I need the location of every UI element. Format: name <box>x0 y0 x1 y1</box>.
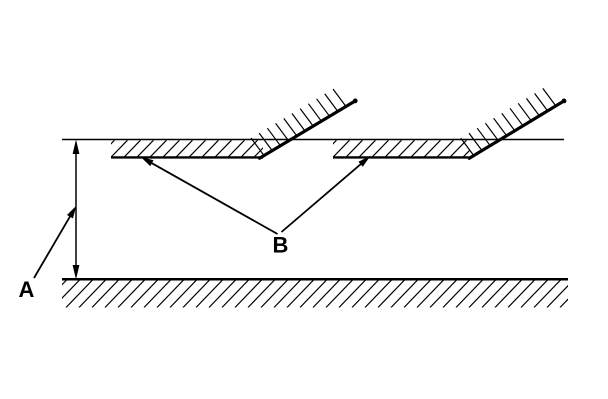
leader from B to right plate <box>282 156 371 232</box>
right plate hatching <box>320 140 480 157</box>
left plate bottom edge <box>111 156 263 158</box>
left raised flap edge <box>260 99 358 159</box>
lower surface hatching <box>40 280 600 308</box>
leader from A to dimension line <box>34 206 77 279</box>
top surface line <box>62 139 564 141</box>
right raised flap hatching <box>461 88 556 155</box>
label B <box>273 233 289 258</box>
lower surface line <box>62 278 568 281</box>
label A <box>19 277 35 302</box>
left raised flap hatching <box>251 89 346 156</box>
svg-text:A: A <box>19 277 35 302</box>
dimension line A (vertical double-headed arrow) <box>73 140 80 280</box>
leader from B to left plate <box>141 157 278 234</box>
svg-text:B: B <box>273 233 289 258</box>
right plate bottom edge <box>333 156 470 158</box>
left plate hatching <box>98 140 271 157</box>
right raised flap edge <box>469 99 566 159</box>
